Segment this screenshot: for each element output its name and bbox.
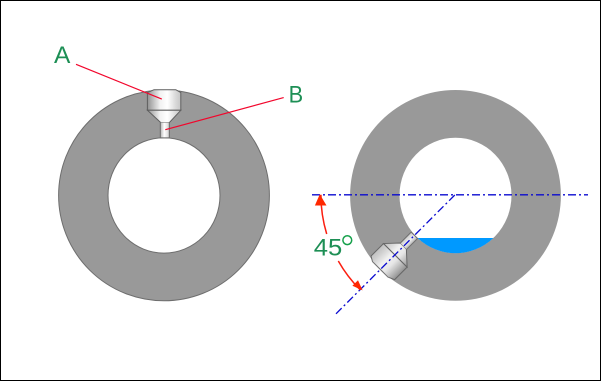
diagonal centerline 45deg xyxy=(336,194,456,314)
funnel A (left figure, at top) xyxy=(147,90,180,138)
svg-text:45: 45 xyxy=(314,235,343,262)
svg-text:B: B xyxy=(289,81,304,108)
blue liquid level inside right ring xyxy=(418,238,494,253)
left ring inner outline xyxy=(108,138,220,253)
red dimension arc segment 1 xyxy=(321,195,327,234)
right ring (gray annulus) xyxy=(350,90,561,301)
arrowhead at diagonal centerline xyxy=(352,280,362,290)
red dimension arc segment 2 xyxy=(338,261,360,290)
horizontal centerline xyxy=(312,194,588,196)
leader line B xyxy=(165,98,283,130)
leader line A xyxy=(76,64,162,99)
svg-text:A: A xyxy=(54,42,71,69)
left ring outer outline xyxy=(59,90,270,301)
funnel B (right figure, rotated 45 deg below horizontal) xyxy=(369,224,427,282)
arrowhead up at horizontal centerline xyxy=(315,194,327,205)
degree symbol circle xyxy=(343,236,352,245)
left ring (gray annulus) xyxy=(59,90,270,301)
